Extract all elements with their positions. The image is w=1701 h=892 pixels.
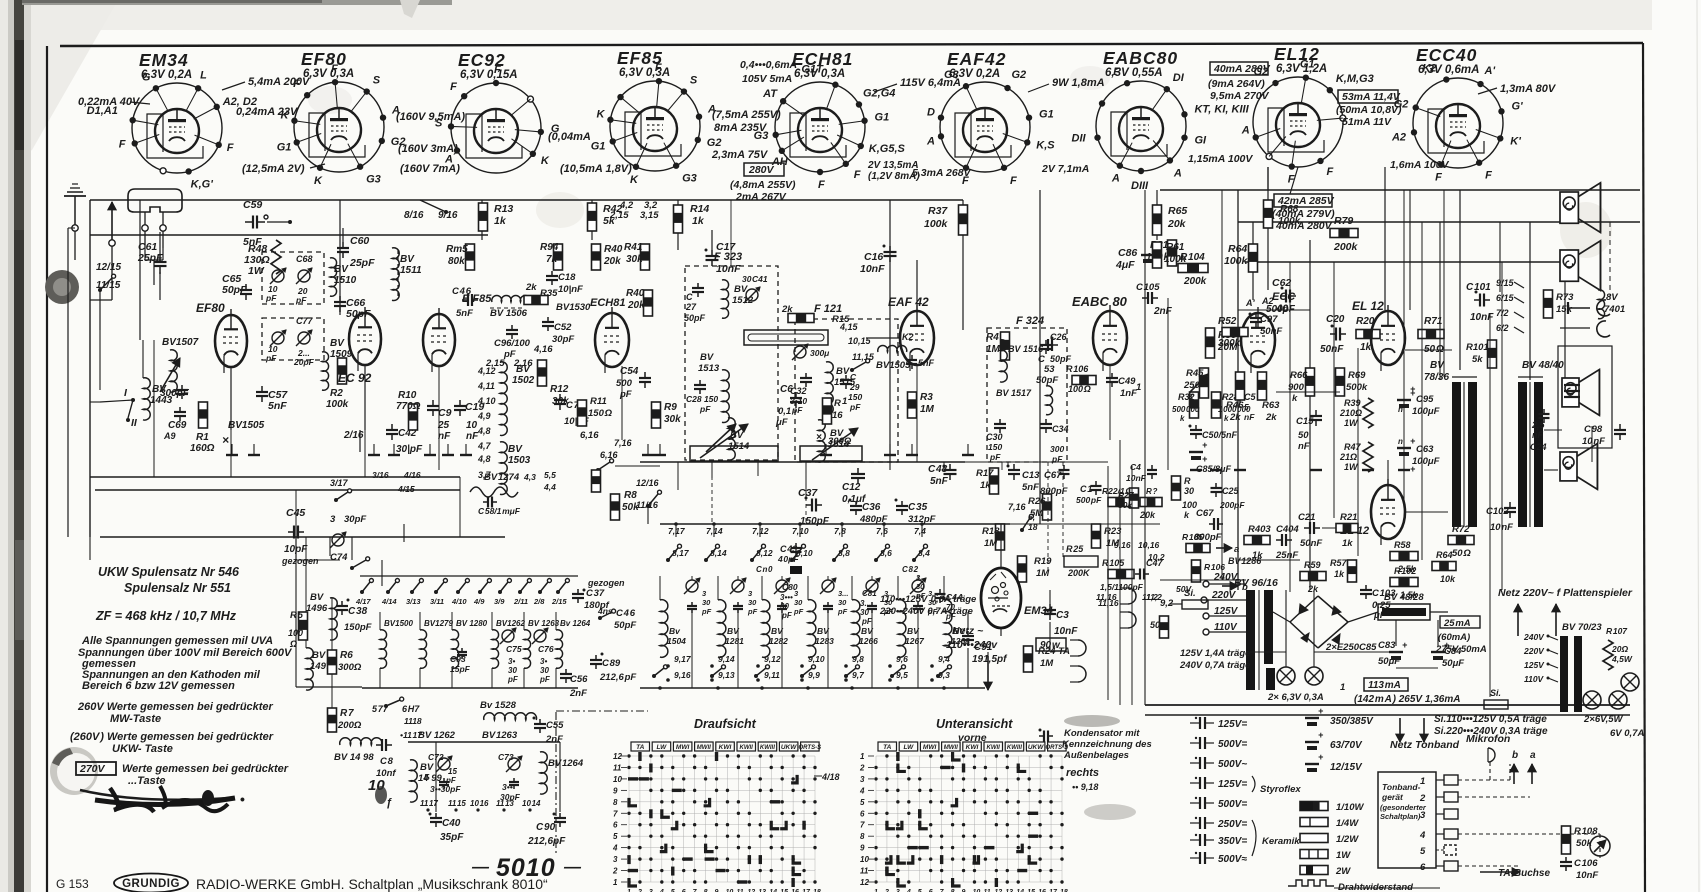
svg-text:200pF: 200pF (1219, 500, 1245, 510)
svg-text:C24: C24 (1530, 442, 1547, 452)
svg-text:7,4: 7,4 (914, 526, 926, 536)
output transformer BV78/36 core (1452, 382, 1461, 527)
capacitor C93 15pF (461, 648, 463, 652)
svg-text:R68: R68 (1280, 204, 1299, 215)
svg-text:40mA 280V: 40mA 280V (1213, 63, 1271, 75)
label R30 100k (1172, 476, 1181, 500)
svg-text:DI: DI (1173, 72, 1185, 84)
wire vertical rail x1268 (1267, 190, 1269, 290)
svg-text:4,3: 4,3 (523, 472, 536, 482)
svg-text:Si.110•••125V 0,5A träge: Si.110•••125V 0,5A träge (1434, 714, 1547, 725)
jack symbol T-bar 1 (1568, 307, 1590, 309)
svg-text:1: 1 (1340, 682, 1345, 693)
svg-text:R40: R40 (604, 244, 623, 255)
label BV1528 (484, 713, 537, 720)
svg-text:pF: pF (265, 293, 277, 303)
svg-text:27: 27 (685, 302, 697, 312)
wire detector bus extension (1010, 523, 1160, 525)
svg-text:Schaltplan): Schaltplan) (1380, 812, 1421, 821)
svg-text:30: 30 (780, 602, 789, 611)
svg-text:—: — (471, 857, 490, 876)
svg-text:C 98: C 98 (1584, 424, 1603, 435)
scan crease right (1697, 0, 1699, 892)
svg-text:2k: 2k (525, 282, 537, 293)
svg-text:DIII: DIII (1131, 180, 1149, 192)
svg-text:50μF: 50μF (1378, 656, 1400, 667)
svg-text:1,5/1100pF: 1,5/1100pF (1100, 582, 1144, 592)
capacitor C21 50nF (1304, 527, 1310, 529)
svg-text:(160V 7mA): (160V 7mA) (400, 163, 460, 175)
svg-text:UKW: UKW (781, 744, 797, 751)
coil BV1516 (1000, 340, 1007, 382)
wire speaker bus lower (1245, 261, 1560, 263)
capacitor C19 10nF (459, 400, 461, 406)
svg-text:10 14: 10 14 (522, 799, 541, 808)
resistor R25 200k box (1064, 556, 1098, 567)
resistor R11 150 ohm (578, 400, 587, 426)
svg-text:9,16: 9,16 (1114, 540, 1131, 550)
svg-text:C41: C41 (752, 274, 768, 284)
svg-text:C13: C13 (1022, 470, 1040, 481)
svg-text:BV 1516: BV 1516 (1008, 344, 1044, 354)
svg-text:9,5: 9,5 (896, 670, 908, 680)
legend capacitor voltage symbols (1190, 722, 1200, 724)
resistor R59 2k (1300, 572, 1326, 581)
capacitor C404 25nF (1276, 539, 1282, 541)
svg-text:50pF: 50pF (222, 284, 247, 296)
svg-text:C5: C5 (1244, 392, 1256, 402)
svg-text:6: 6 (1420, 862, 1426, 873)
resistor R40 20k (592, 244, 601, 270)
capacitor C28 150pF (699, 380, 701, 385)
svg-text:UKW- Taste: UKW- Taste (112, 743, 173, 755)
wire vertical rail x592 (591, 200, 593, 240)
wire net left column (67, 228, 69, 537)
trimmer C39 (794, 346, 806, 358)
voltage tap 110V (1203, 629, 1209, 635)
resistor R72 50ohm (1448, 536, 1474, 545)
svg-text:R11: R11 (590, 396, 607, 407)
capacitor C52 30pF (547, 317, 549, 322)
choke BV48/28 (1378, 604, 1430, 620)
svg-text:R94: R94 (540, 242, 559, 253)
svg-text:10|nF: 10|nF (558, 284, 583, 295)
resistor R106b vertical (1192, 560, 1201, 582)
svg-text:MWII: MWII (944, 745, 958, 751)
svg-text:30: 30 (794, 598, 803, 607)
svg-text:Drahtwiderstand: Drahtwiderstand (1338, 882, 1413, 892)
svg-text:R: R (834, 398, 841, 409)
boxed label 113mA (1364, 678, 1408, 691)
arrows plattenspieler (1517, 604, 1519, 636)
svg-text:pF: pF (793, 607, 804, 616)
wire vertical rail x90 (89, 200, 91, 537)
svg-text:R37: R37 (928, 205, 948, 217)
svg-text:a: a (1530, 750, 1536, 761)
coil BV1505 small (878, 345, 907, 352)
svg-text:C67: C67 (1196, 508, 1214, 519)
wire long vertical output stage (1289, 262, 1291, 592)
svg-text:10: 10 (613, 775, 622, 784)
svg-text:12/15: 12/15 (96, 262, 121, 273)
svg-text:k: k (1292, 393, 1298, 404)
svg-text:7,8: 7,8 (834, 526, 846, 536)
capacitor C57 5nF (261, 386, 263, 392)
coil BV1497 (306, 648, 313, 690)
svg-text:ZF = 468 kHz / 10,7 MHz: ZF = 468 kHz / 10,7 MHz (95, 609, 237, 623)
resistor R46 2k (1236, 372, 1245, 400)
svg-text:5,5: 5,5 (544, 470, 556, 480)
svg-text:EF80: EF80 (196, 301, 225, 315)
svg-text:30: 30 (1184, 486, 1194, 496)
svg-text:1k: 1k (494, 215, 507, 227)
svg-text:15: 15 (448, 767, 457, 776)
smudge right of matrix2 (1084, 804, 1136, 820)
svg-text:10nF: 10nF (1054, 626, 1078, 637)
legend resistor 1/10W (1300, 802, 1328, 811)
svg-text:A': A' (1245, 298, 1255, 308)
svg-text:C n 0: C n 0 (756, 565, 773, 574)
note Kondensator mit Kennzeichnung (1064, 715, 1120, 727)
svg-text:G2: G2 (1012, 69, 1027, 81)
resistor R52 300k (1222, 328, 1248, 337)
wire tonband right rail (1599, 834, 1601, 858)
racetrack coil F323 lower (690, 446, 778, 461)
wire misc right (1591, 426, 1593, 462)
voltage tap 240V (1203, 581, 1209, 587)
svg-text:gezogen: gezogen (281, 556, 319, 566)
capacitor C101 10nF (1474, 299, 1480, 301)
resistor R403 1k (1244, 536, 1270, 545)
svg-text:280V: 280V (748, 164, 775, 176)
svg-text:C25: C25 (1222, 486, 1240, 496)
wire vertical rail x340 (339, 200, 341, 315)
svg-text:9,6: 9,6 (896, 654, 908, 664)
resistor R17 1k (990, 468, 999, 494)
svg-text:6,: 6, (1028, 512, 1035, 522)
svg-text:G2,G4: G2,G4 (863, 88, 895, 100)
svg-text:BV: BV (312, 650, 326, 661)
svg-text:pF: pF (791, 405, 803, 415)
svg-text:1: 1 (1420, 776, 1425, 787)
resistor R23 1M (1092, 524, 1101, 548)
svg-text:(160V 9,5mA): (160V 9,5mA) (396, 111, 465, 123)
coil BV1264 lower (540, 752, 547, 794)
svg-text:7,16: 7,16 (614, 438, 633, 448)
racetrack coil F121 upper (744, 330, 828, 345)
svg-text:9,4: 9,4 (938, 654, 950, 664)
svg-text:2: 2 (1419, 793, 1426, 804)
svg-text:Außenbelages: Außenbelages (1063, 750, 1129, 761)
svg-text:K': K' (1510, 135, 1521, 147)
svg-text:Tonband-: Tonband- (1382, 782, 1421, 792)
resistor R28 1M (1212, 392, 1221, 418)
svg-text:KT, KI, KIII: KT, KI, KIII (1194, 103, 1249, 115)
svg-text:2×6V,5W: 2×6V,5W (1583, 714, 1624, 725)
svg-text:C404: C404 (1276, 524, 1299, 535)
svg-text:C 106: C 106 (1574, 858, 1598, 869)
svg-text:pF: pF (747, 607, 758, 616)
svg-text:7,16: 7,16 (1008, 502, 1027, 512)
svg-text:C95: C95 (1416, 394, 1434, 405)
svg-text:70: 70 (946, 603, 955, 612)
svg-text:C18: C18 (558, 272, 576, 283)
svg-text:100k: 100k (924, 218, 949, 230)
svg-text:C 38: C 38 (348, 606, 368, 617)
svg-text:EAF 42: EAF 42 (888, 295, 929, 309)
svg-text:200K: 200K (1067, 568, 1091, 578)
svg-text:250: 250 (1183, 380, 1201, 391)
left scan edge dark strip (0, 0, 9, 892)
resistor R41 30k (641, 244, 650, 270)
svg-text:R 5: R 5 (290, 610, 304, 621)
wire bus y490 left (95, 489, 460, 491)
svg-text:•: • (240, 791, 245, 807)
svg-text:30pF: 30pF (344, 514, 366, 525)
svg-text:3...: 3... (884, 589, 894, 598)
svg-text:4,10: 4,10 (477, 396, 496, 406)
svg-text:K: K (630, 174, 639, 186)
svg-text:3: 3 (860, 775, 865, 784)
wire dashed verticals from IF boxes (711, 462, 713, 524)
wire horizontal links right (1238, 309, 1310, 311)
svg-text:5nF: 5nF (918, 358, 935, 368)
svg-text:C30: C30 (986, 432, 1003, 442)
capacitor C8 10nF (376, 744, 382, 746)
svg-text:53mA 11,4V: 53mA 11,4V (1342, 91, 1401, 103)
svg-text:F: F (450, 81, 457, 93)
svg-text:F: F (1010, 175, 1017, 187)
svg-text:300μ: 300μ (810, 348, 830, 358)
svg-text:1: 1 (842, 396, 847, 407)
svg-text:A: A (1111, 173, 1120, 185)
wire speaker bus upper (1238, 221, 1640, 223)
svg-text:R: R (1184, 476, 1191, 486)
svg-text:2: 2 (612, 867, 618, 876)
antenna T dipole symbol (128, 189, 182, 212)
svg-text:C6: C6 (780, 384, 793, 395)
svg-text:78/36: 78/36 (1424, 372, 1449, 383)
svg-text:•• 9,18: •• 9,18 (1072, 782, 1098, 792)
svg-text:R403: R403 (1248, 524, 1271, 535)
svg-text:250V=: 250V= (1217, 819, 1247, 830)
svg-text:C52: C52 (554, 322, 572, 333)
svg-text:51mA 11V: 51mA 11V (1342, 116, 1392, 128)
svg-text:300: 300 (1050, 444, 1064, 454)
svg-text:G3: G3 (366, 174, 381, 186)
svg-text:1267: 1267 (905, 636, 925, 646)
svg-text:R40: R40 (626, 288, 645, 299)
svg-text:F: F (331, 63, 338, 75)
svg-text:5: 5 (1244, 402, 1249, 412)
svg-text:2: 2 (859, 763, 865, 772)
svg-text:150: 150 (988, 442, 1002, 452)
svg-text:G: G (142, 71, 151, 83)
svg-text:LW: LW (904, 744, 915, 751)
svg-text:MWII: MWII (697, 745, 711, 751)
svg-text:KWIII: KWIII (1007, 745, 1022, 751)
capacitor C95 100uF electrolytic (1397, 399, 1411, 401)
svg-text:G 153: G 153 (56, 877, 89, 891)
svg-text:BV: BV (700, 352, 714, 363)
svg-text:6,16: 6,16 (580, 430, 599, 441)
svg-text:G1: G1 (1300, 59, 1315, 71)
wire AM bank bottom bus (362, 687, 578, 689)
svg-text:4/17: 4/17 (355, 597, 371, 606)
jack symbol T-bar 2 (1560, 327, 1590, 329)
svg-text:(60mA): (60mA) (1438, 632, 1470, 643)
coil BV1514 lower F121 (818, 420, 825, 462)
svg-text:Keramik: Keramik (1262, 836, 1300, 847)
resistor feed (592, 470, 601, 492)
svg-text:212,6 pF: 212,6 pF (599, 672, 636, 683)
resistor R61 100k (1153, 242, 1162, 268)
capacitor C91 191,5pF (967, 631, 969, 636)
switch after C45 (350, 566, 354, 570)
svg-text:1k: 1k (1342, 538, 1353, 549)
svg-text:Netz 220V~ f Plattenspieler: Netz 220V~ f Plattenspieler (1498, 587, 1633, 599)
svg-text:R52: R52 (1218, 316, 1237, 327)
svg-text:2W: 2W (1335, 866, 1351, 877)
svg-text:C86: C86 (1118, 247, 1137, 259)
svg-text:R64: R64 (1228, 243, 1247, 255)
svg-text:20Ω: 20Ω (1611, 644, 1628, 654)
resistor R12 30k (538, 360, 547, 386)
wire bank verticals (691, 576, 693, 580)
svg-text:100k: 100k (1224, 255, 1249, 267)
svg-text:800pF: 800pF (1040, 486, 1068, 497)
svg-text:9,5mA 270V: 9,5mA 270V (1210, 90, 1270, 102)
svg-text:275V 50mA: 275V 50mA (1435, 644, 1487, 655)
capacitor C60 25pF (342, 242, 344, 248)
svg-text:40: 40 (1275, 303, 1289, 315)
svg-text:G3: G3 (754, 130, 769, 142)
svg-text:Bv 1264: Bv 1264 (560, 619, 591, 628)
svg-text:R46: R46 (1226, 400, 1244, 411)
svg-text:C 58/1 mμF: C 58/1 mμF (478, 506, 521, 516)
capacitor C17 10nF (711, 250, 713, 256)
capacitor C12 0,1uF (857, 468, 859, 474)
svg-text:200k: 200k (1183, 276, 1207, 287)
svg-text:125V: 125V (1214, 606, 1239, 617)
upper bank trimmers (502, 630, 514, 642)
wire power vertical x1286 (1285, 590, 1287, 660)
capacitor C9 25nF (432, 400, 434, 406)
speaker top right 2 (1560, 250, 1578, 281)
svg-text:R 108: R 108 (1574, 826, 1598, 837)
svg-text:μF: μF (775, 417, 788, 428)
svg-text:1: 1 (613, 878, 618, 887)
svg-text:11,15: 11,15 (852, 352, 875, 362)
wire output transformer tops (1452, 376, 1477, 378)
resistor R14 1k (674, 205, 683, 233)
svg-text:C21: C21 (1298, 512, 1315, 523)
svg-text:UKW Spulensatz Nr 546: UKW Spulensatz Nr 546 (98, 565, 240, 579)
resistor R16 300 ohm (823, 398, 832, 424)
svg-text:K: K (314, 175, 323, 187)
svg-text:R3: R3 (920, 392, 933, 403)
svg-text:10,2: 10,2 (1148, 552, 1165, 562)
svg-text:9,7: 9,7 (852, 670, 865, 680)
svg-text:Spulensalz Nr 551: Spulensalz Nr 551 (124, 581, 231, 595)
svg-text:30: 30 (508, 666, 517, 675)
IF transformer F323 dashed box (685, 266, 778, 460)
tube EF80 envelope (215, 315, 247, 367)
svg-text:pF: pF (915, 591, 926, 600)
resistor R104 200k box (1178, 264, 1208, 273)
svg-text:8,8: 8,8 (838, 548, 850, 558)
svg-text:160Ω: 160Ω (190, 443, 215, 454)
svg-text:R41: R41 (624, 242, 643, 253)
svg-text:C 8: C 8 (380, 756, 394, 767)
wire vertical rail x1460 (1459, 190, 1461, 370)
svg-text:6: 6 (860, 809, 865, 818)
svg-text:BV 1286: BV 1286 (1228, 556, 1262, 566)
svg-text:EF80: EF80 (301, 49, 347, 69)
svg-text:1118: 1118 (404, 716, 422, 726)
capacitor C85/8uF electrolytic (1189, 451, 1203, 453)
wire power bus 715 (1145, 714, 1630, 716)
svg-text:C37: C37 (798, 487, 818, 499)
svg-text:4/18: 4/18 (821, 772, 840, 782)
svg-text:113 mA: 113 mA (1368, 680, 1401, 691)
svg-text:MWI: MWI (676, 744, 690, 751)
resistor R26 5M (1043, 494, 1052, 520)
svg-text:pF: pF (989, 452, 1001, 462)
resistor R20 1k (1356, 330, 1380, 339)
svg-text:1W: 1W (1344, 418, 1359, 428)
capacitor C56 2nF (565, 669, 567, 674)
svg-text:20k: 20k (603, 256, 621, 267)
note 270V boxed (76, 762, 116, 775)
wire vertical speaker feed x1530 (1529, 222, 1531, 380)
svg-text:C3: C3 (1056, 610, 1069, 621)
svg-text:1M: 1M (920, 404, 935, 415)
svg-text:9: 9 (613, 786, 618, 795)
coil BV1514 with arrow (728, 418, 735, 460)
svg-text:ECH81: ECH81 (590, 297, 625, 309)
svg-text:C26: C26 (1050, 332, 1068, 342)
svg-text:3...: 3... (838, 589, 848, 598)
svg-text:EL 12: EL 12 (1352, 299, 1384, 313)
capacitor C6 0,1uF (795, 392, 797, 398)
svg-text:50pF: 50pF (684, 313, 706, 323)
svg-text:G2: G2 (707, 137, 722, 149)
svg-text:TA: TA (883, 744, 891, 751)
wire long vertical bundle right-center (1107, 466, 1109, 700)
svg-text:BV: BV (836, 366, 850, 377)
svg-text:35pF: 35pF (440, 832, 464, 843)
svg-text:50V: 50V (1176, 584, 1192, 594)
svg-text:R9: R9 (664, 402, 677, 413)
svg-text:BV: BV (516, 364, 531, 375)
resistor R63 2k (1258, 372, 1267, 400)
resistor R71 50ohm (1418, 330, 1444, 339)
wire detector vertical x944 (943, 462, 945, 466)
svg-text:3•: 3• (540, 657, 547, 666)
svg-text:1W: 1W (1344, 462, 1359, 472)
svg-text:12/15V: 12/15V (1330, 762, 1363, 773)
tube EL12 envelope lower (1371, 485, 1405, 539)
svg-text:50pF: 50pF (1050, 354, 1072, 364)
resistor R8 50k (611, 494, 620, 520)
svg-text:1k: 1k (1334, 569, 1345, 579)
svg-text:k: k (1180, 414, 1185, 423)
coil BV1496 (330, 598, 337, 640)
svg-text:C62: C62 (1272, 277, 1291, 289)
svg-text:K2: K2 (1422, 63, 1436, 75)
svg-text:4μF: 4μF (1115, 259, 1135, 271)
